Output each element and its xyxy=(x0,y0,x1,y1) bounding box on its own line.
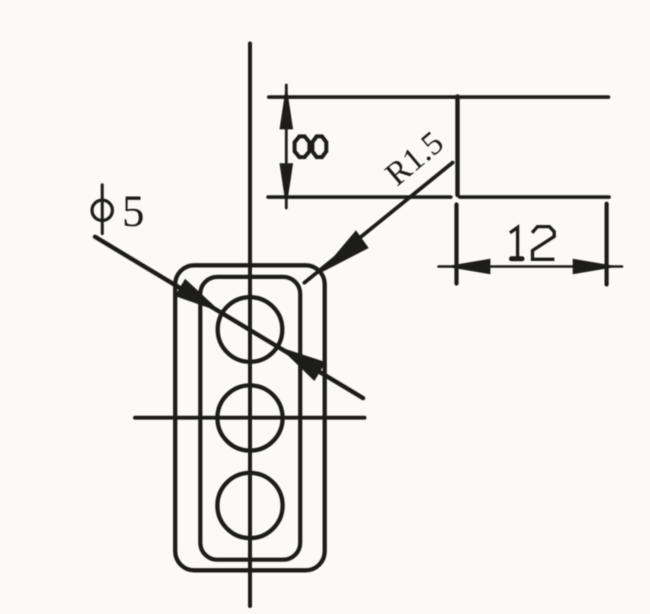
dimension 12 line xyxy=(439,265,623,268)
dimension text 12: digit 1 base bar xyxy=(512,256,523,261)
R1.5 leader line xyxy=(304,163,452,283)
phi5 arrowhead upper-left xyxy=(175,279,221,312)
outer body rounded rectangle xyxy=(175,265,325,570)
R1.5 text xyxy=(384,130,445,186)
profile extension line A (top) xyxy=(269,95,609,99)
dimension 12 right extension line xyxy=(604,204,608,285)
dimension text 8 (rotated digit, left lobe) xyxy=(295,136,310,157)
phi5 arrowhead lower-right xyxy=(279,347,326,381)
profile extension line B right segment xyxy=(460,195,609,199)
inner slot rounded rectangle xyxy=(200,277,300,560)
profile extension line B left segment xyxy=(268,195,451,199)
dimension text 12: digit 1 xyxy=(510,227,518,257)
dimension 12 arrowhead right xyxy=(573,259,619,275)
phi5 text: digit 5 xyxy=(125,197,143,227)
hole circle 2 xyxy=(217,385,282,450)
horizontal centerline xyxy=(135,416,365,420)
phi symbol circle xyxy=(92,200,112,220)
hole circle 3 xyxy=(217,473,282,538)
dimension 12 arrowhead left xyxy=(444,259,490,275)
phi5 leader line xyxy=(95,237,363,398)
vertical centerline xyxy=(248,44,252,607)
dimension 8 arrowhead down xyxy=(280,163,294,208)
phi symbol stem xyxy=(101,185,104,234)
R1.5 arrowhead xyxy=(320,230,369,273)
dimension 12 left extension line xyxy=(454,205,458,284)
dimension 8 arrowhead up xyxy=(280,84,294,129)
hole circle 1 xyxy=(218,297,283,362)
dimension 8 line xyxy=(285,85,288,208)
profile vertical edge line xyxy=(455,97,459,196)
dimension text 12: digit 2 xyxy=(532,227,554,260)
dimension text 8 (rotated digit, right lobe) xyxy=(312,136,326,157)
